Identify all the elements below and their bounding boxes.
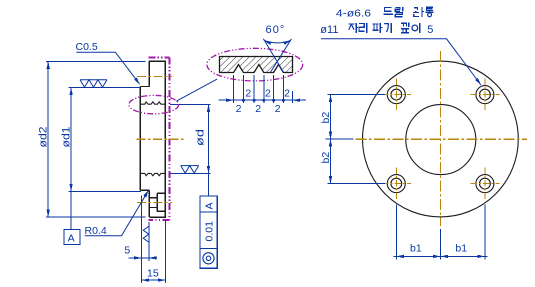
dimension od (serrated bore) — [170, 104, 211, 196]
svg-text:2: 2 — [236, 103, 242, 115]
boss bottom step face — [140, 189, 149, 191]
svg-text:2: 2 — [284, 88, 290, 100]
pitch extension lines — [219, 75, 306, 103]
svg-text:b2: b2 — [320, 112, 332, 124]
svg-text:15: 15 — [147, 267, 159, 279]
svg-text:b1: b1 — [455, 243, 467, 255]
left face lower — [148, 190, 150, 217]
bolt hole crosshairs (orange) — [382, 79, 500, 201]
serrated bore upper edge (wavy) — [141, 102, 165, 104]
bolt hole top-right — [476, 86, 494, 104]
svg-text:2: 2 — [265, 88, 271, 100]
pitch dimension line — [219, 99, 306, 101]
angular dimension arc — [264, 40, 291, 43]
dimension b1 pair (bottom) — [394, 205, 488, 260]
svg-text:ød2: ød2 — [38, 127, 50, 148]
boss top step face — [140, 86, 149, 88]
svg-text:b1: b1 — [410, 243, 422, 255]
svg-text:ød1: ød1 — [61, 127, 73, 148]
svg-text:2: 2 — [245, 88, 251, 100]
svg-text:2: 2 — [275, 103, 281, 115]
svg-text:R0.4: R0.4 — [85, 225, 107, 237]
dimension od2 — [46, 61, 145, 217]
note underline and leader to top-right bolt hole — [321, 39, 481, 85]
svg-text:4-ø6.6: 4-ø6.6 — [336, 7, 371, 19]
dimension dots at chain junctions — [242, 99, 285, 102]
bolt hole centerline bottom (orange) — [137, 202, 172, 204]
serration tooth profile (hatched bar) — [220, 57, 293, 73]
dimension od1 — [68, 88, 141, 230]
datum A box — [64, 229, 80, 244]
main axis centerline (orange) — [136, 138, 184, 140]
flange outer circle — [363, 61, 519, 217]
detail balloon ellipse on section (magenta) — [129, 95, 179, 113]
svg-text:A: A — [68, 232, 75, 244]
60 degree flank angle lines — [263, 39, 291, 72]
surface finish vv rotated on extension line — [143, 226, 149, 242]
FRONT-VIEW — [320, 51, 527, 259]
counterbore bottom face — [156, 193, 158, 211]
counterbore edges (11) — [157, 193, 165, 211]
svg-text:b2: b2 — [320, 152, 332, 164]
svg-text:ø11: ø11 — [320, 24, 338, 36]
hub left face upper — [148, 61, 150, 86]
svg-text:ød: ød — [194, 129, 206, 146]
serrated bore lower edge (wavy) — [141, 173, 165, 175]
bolt hole bottom-left — [387, 175, 405, 193]
right face — [164, 61, 166, 218]
phantom outline of mating part (magenta) — [148, 57, 169, 220]
center bore circle — [406, 105, 476, 175]
concentricity feature control frame — [200, 196, 217, 268]
part outline (section profile) — [140, 61, 165, 218]
svg-text:0.01: 0.01 — [203, 221, 215, 242]
dimension b2 pair (left) — [326, 95, 386, 184]
bottom face — [149, 216, 165, 218]
boss left face — [139, 87, 141, 191]
dimension 5 (boss thickness) — [129, 196, 157, 284]
svg-text:A: A — [203, 202, 215, 209]
bolt hole bottom-right — [476, 175, 494, 193]
detail enlarged balloon ellipse (magenta) — [207, 48, 303, 81]
svg-text:5: 5 — [124, 245, 130, 257]
vertical centerline (orange) — [440, 51, 442, 226]
SECTION-VIEW — [38, 41, 218, 283]
horizontal centerline (orange) — [356, 138, 528, 140]
bolt hole bore edges (6.6) — [149, 198, 157, 208]
svg-text:2: 2 — [255, 103, 261, 115]
surface finish vv on od extension — [181, 166, 199, 174]
dimension 15 (total thickness) — [142, 220, 166, 283]
bolt hole top-left — [387, 86, 405, 104]
top face — [149, 60, 166, 62]
svg-text:C0.5: C0.5 — [76, 41, 98, 53]
surface finish vvv on od1 extension — [80, 80, 107, 88]
svg-text:60°: 60° — [266, 24, 286, 36]
detail leader line — [176, 79, 217, 101]
bolt hole centerline top (orange) — [137, 76, 172, 78]
pitch labels 2 upper row — [236, 88, 291, 116]
DETAIL-VIEW — [129, 24, 306, 115]
svg-text:5: 5 — [427, 24, 433, 36]
